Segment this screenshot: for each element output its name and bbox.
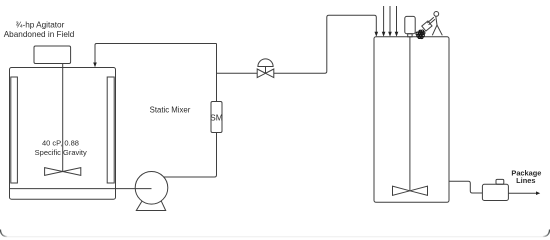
agitator motor M2 (right tank) — [405, 16, 415, 33]
impeller (right tank) — [393, 186, 428, 195]
package pump P2 body — [482, 184, 508, 200]
wire: additive feed line 2 — [389, 6, 391, 32]
wire: tee to control valve — [217, 72, 258, 74]
agitator motor M1 (left tank) — [34, 46, 71, 64]
svg-text:¾-hp Agitator: ¾-hp Agitator — [16, 21, 65, 30]
baffle right (tank T1) — [107, 77, 114, 183]
wire: recirculation line to left tank — [95, 44, 217, 64]
wire: right tank outlet to package pump — [449, 181, 482, 193]
bag of additive (tilted sack) — [422, 21, 432, 31]
wire: outlet to package lines with arrow — [508, 192, 536, 194]
operator figure arms — [427, 17, 435, 25]
arrowhead additive 1 — [382, 32, 386, 37]
left tank T1 — [10, 68, 116, 200]
card corner bottom-right — [543, 230, 550, 237]
svg-text:40 cP, 0.88: 40 cP, 0.88 — [42, 139, 79, 148]
arrowhead feed into right tank — [375, 32, 379, 37]
svg-text:Lines: Lines — [516, 176, 535, 185]
label: 3/4-hp Agitator Abandoned in Field — [4, 21, 75, 39]
agitator shaft (left tank) — [62, 64, 64, 172]
card corner bottom-left — [0, 230, 7, 237]
arrowhead additive 3 — [395, 32, 399, 37]
arrowhead into left tank — [93, 63, 97, 68]
pump P1 base — [136, 201, 165, 211]
label: 40 cP, 0.88 — [35, 139, 87, 157]
operator figure legs — [432, 25, 442, 35]
arrowhead to package lines — [536, 191, 540, 195]
arrowhead additive 2 — [388, 32, 392, 37]
wire: valve to right tank — [274, 15, 376, 73]
static mixer SM box — [211, 102, 222, 133]
operator figure torso — [436, 16, 437, 25]
baffle left (tank T1) — [11, 77, 18, 183]
svg-text:Static Mixer: Static Mixer — [150, 105, 191, 114]
pump P1 circle — [135, 172, 168, 205]
control valve V1 body — [257, 69, 274, 78]
svg-text:Specific Gravity: Specific Gravity — [35, 148, 87, 157]
control valve V1 stem — [265, 67, 267, 74]
wire: suction pipe tank T1 to pump P1 — [116, 188, 152, 190]
wire: additive feed line 3 — [396, 6, 398, 32]
wire: additive feed line 1 — [383, 6, 385, 32]
svg-text:SM: SM — [210, 113, 223, 123]
poured powder scribble — [416, 30, 425, 39]
label: Package Lines — [511, 168, 541, 185]
wire: static mixer riser — [216, 44, 218, 102]
right tank T2 — [374, 37, 449, 203]
agitator shaft (right tank) — [409, 37, 411, 191]
operator figure head — [434, 12, 439, 17]
impeller (left tank) — [45, 168, 81, 176]
svg-text:Abandoned in Field: Abandoned in Field — [4, 30, 75, 39]
control valve V1 actuator dome — [258, 59, 273, 67]
package pump P2 top box — [496, 179, 504, 184]
wire: pump discharge to static mixer — [164, 133, 217, 178]
agitator motor M2 mount — [408, 34, 412, 37]
left tank inner bottom line — [10, 188, 116, 190]
